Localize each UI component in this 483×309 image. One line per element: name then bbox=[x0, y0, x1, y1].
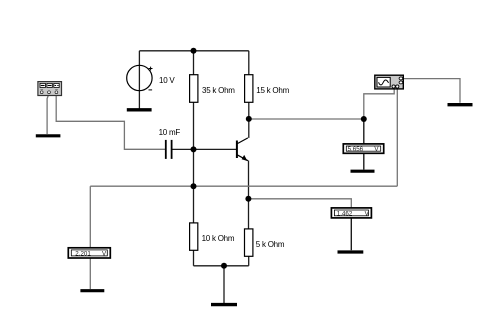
label 5 k Ohm bbox=[256, 240, 285, 249]
label 10 mF bbox=[159, 128, 181, 137]
wire voltmeter U1 column bbox=[363, 119, 365, 144]
voltage source V1 bbox=[127, 65, 153, 90]
voltmeter U1 5.656 V bbox=[343, 144, 383, 153]
resistor R4 5 k Ohm bbox=[245, 229, 253, 256]
junction dot emitter node bbox=[245, 196, 251, 202]
ground bottom center bbox=[211, 303, 237, 306]
wire emitter sense bbox=[249, 199, 352, 208]
svg-text:1.462: 1.462 bbox=[337, 211, 353, 218]
wire bottom emitter-divider rail bbox=[194, 265, 249, 267]
wire function generator common to ground bbox=[47, 95, 49, 134]
wire collector to scope node bbox=[249, 118, 364, 120]
ground right of oscilloscope bbox=[448, 103, 473, 106]
resistor R2 15 k Ohm bbox=[245, 75, 253, 103]
wire V1 column bbox=[138, 51, 140, 109]
wire 10k bottom bbox=[193, 250, 195, 265]
ground under voltmeter U1 bbox=[351, 170, 375, 173]
junction dot capacitor / base node bbox=[191, 146, 197, 152]
svg-text:15 k Ohm: 15 k Ohm bbox=[256, 86, 289, 95]
junction dot divider ground bbox=[221, 263, 227, 269]
wire emitter node to 5k bbox=[248, 199, 250, 229]
ground under voltage source bbox=[127, 108, 152, 111]
voltmeter U3 2.201 V bbox=[68, 248, 110, 258]
wire voltmeter U2 to ground bbox=[350, 217, 352, 250]
wire 15k bottom to collector node bbox=[248, 102, 250, 119]
svg-text:5 k Ohm: 5 k Ohm bbox=[256, 240, 285, 249]
wire base sense rail bbox=[90, 185, 397, 187]
wire base bbox=[194, 148, 237, 150]
wire function generator output to capacitor bbox=[56, 95, 165, 150]
svg-text:10 V: 10 V bbox=[159, 76, 175, 85]
label 35 k Ohm bbox=[202, 86, 235, 95]
wire 15k top drop bbox=[248, 51, 250, 75]
svg-text:35 k Ohm: 35 k Ohm bbox=[202, 86, 235, 95]
wire 5k bottom stub bbox=[248, 256, 250, 266]
wire top rail from V1 to 15k bbox=[139, 50, 248, 52]
svg-text:2.201: 2.201 bbox=[75, 251, 91, 258]
wire voltmeter U1 to ground bbox=[363, 153, 365, 170]
resistor R1 35 k Ohm bbox=[190, 75, 198, 103]
voltmeter U2 1.462 V bbox=[331, 208, 371, 218]
wire scope channel A bbox=[364, 89, 394, 119]
wire left voltmeter drop bbox=[89, 186, 91, 248]
ground under function generator bbox=[36, 134, 61, 137]
capacitor C1 10 mF bbox=[166, 140, 172, 159]
svg-text:10 mF: 10 mF bbox=[159, 128, 181, 137]
wire capacitor to base node bbox=[172, 148, 194, 150]
junction dot base sense rail bbox=[191, 183, 197, 189]
wire rail to 35k bbox=[193, 51, 195, 75]
label 10 k Ohm bbox=[202, 234, 235, 243]
wire scope channel B drop bbox=[396, 89, 398, 186]
ground under voltmeter U2 bbox=[338, 250, 364, 253]
wire emitter vertical bbox=[248, 161, 250, 199]
transistor Q1 bbox=[237, 138, 248, 161]
label 10 V bbox=[159, 76, 175, 85]
oscilloscope XSC1 bbox=[375, 75, 404, 89]
wire center ground drop bbox=[223, 266, 225, 303]
junction dot scope A / voltmeter U1 bbox=[361, 116, 367, 122]
svg-text:5.656: 5.656 bbox=[348, 146, 364, 153]
junction dot top rail / 35k bbox=[191, 48, 197, 54]
ground under voltmeter U3 bbox=[80, 289, 104, 292]
resistor R3 10 k Ohm bbox=[190, 223, 198, 250]
junction dot collector node bbox=[246, 116, 252, 122]
wire 35k bottom to base node bbox=[193, 102, 195, 223]
label 15 k Ohm bbox=[256, 86, 289, 95]
wire collector node to transistor bbox=[248, 119, 250, 138]
svg-text:10 k Ohm: 10 k Ohm bbox=[202, 234, 235, 243]
wire left voltmeter to ground bbox=[89, 257, 91, 289]
function generator XFG1 bbox=[38, 82, 62, 96]
wire scope ground bbox=[403, 79, 460, 103]
